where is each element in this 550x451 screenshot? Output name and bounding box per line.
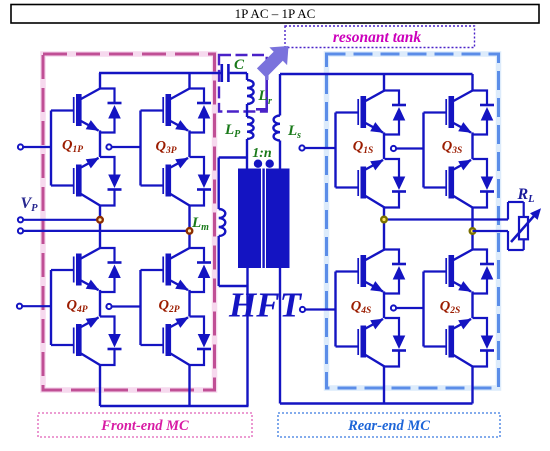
svg-text:C: C (234, 57, 245, 73)
svg-text:1P AC – 1P AC: 1P AC – 1P AC (235, 6, 316, 21)
svg-text:L: L (257, 88, 267, 104)
svg-text:resonant tank: resonant tank (333, 29, 422, 46)
svg-text:Front-end MC: Front-end MC (100, 418, 189, 434)
svg-text:HFT: HFT (228, 286, 303, 325)
svg-text:Rear-end MC: Rear-end MC (347, 418, 430, 434)
svg-text:r: r (268, 96, 272, 107)
svg-text:1:n: 1:n (252, 146, 272, 161)
